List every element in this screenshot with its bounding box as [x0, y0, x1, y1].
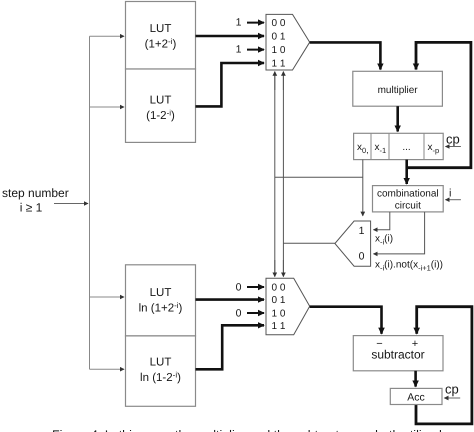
svg-text:step number: step number: [2, 186, 69, 200]
mux M1 (top 4-input multiplexer): [266, 14, 310, 70]
wire: step number arrow into distribution bus: [54, 203, 88, 205]
svg-text:(1-2-i): (1-2-i): [146, 109, 175, 123]
svg-text:1: 1: [236, 43, 242, 55]
svg-text:i ≥ 1: i ≥ 1: [20, 201, 43, 215]
wire: select line A vertical (x0) with arrows into both muxes: [274, 72, 276, 277]
wire: subtractor output to Acc: [414, 371, 417, 387]
wire: x0 sign line from register down into M2 top: [362, 160, 364, 216]
svg-text:0 0: 0 0: [272, 283, 286, 294]
svg-text:1 1: 1 1: [272, 321, 286, 332]
accumulator Acc: [390, 388, 442, 404]
wire: bus arrow into LUT (1-2^-i): [90, 106, 125, 108]
svg-text:combinational: combinational: [377, 189, 439, 200]
svg-text:0 1: 0 1: [272, 32, 286, 43]
svg-text:Acc: Acc: [407, 392, 425, 404]
register X (x0 , x-1 ... x-p): [354, 133, 444, 159]
cp clock stub into register: [446, 132, 461, 147]
svg-text:...: ...: [402, 142, 410, 153]
wire: multiplier output to register: [396, 106, 399, 131]
constant 0 into M3 row 00: [236, 281, 264, 293]
LUT (1-2^-i): [126, 69, 196, 142]
node: step number input label: [2, 186, 69, 215]
wire: vertical distribution bus: [89, 36, 91, 369]
svg-text:LUT: LUT: [150, 23, 172, 35]
wire: M2 output to select line B: [283, 242, 335, 244]
wire: M1 output to multiplier left input: [310, 42, 381, 69]
svg-text:subtractor: subtractor: [371, 348, 424, 362]
wire: feedback from register to multiplier right input: [407, 42, 471, 167]
wire: LUT ln(1-2^-i) output to M3 row 11: [196, 325, 265, 369]
svg-text:multiplier: multiplier: [378, 85, 419, 96]
wire: combinational circuit to M2 input 0: [374, 212, 425, 254]
combinational circuit U2: [373, 186, 444, 212]
svg-text:x-i(i): x-i(i): [375, 234, 393, 247]
subtractor U3: [353, 336, 443, 371]
svg-text:0 1: 0 1: [272, 295, 286, 306]
svg-text:LUT: LUT: [150, 287, 172, 299]
svg-text:LUT: LUT: [150, 357, 172, 369]
wire: LUT(1+2^-i) output to M1 row 01: [196, 35, 265, 38]
wire: LUT(1-2^-i) output to M1 row 11: [196, 63, 265, 106]
i input stub into combinational circuit: [446, 188, 461, 200]
svg-text:circuit: circuit: [395, 201, 421, 212]
constant 0 into M3 row 10: [236, 308, 264, 320]
LUT (1+2^-i): [126, 2, 196, 70]
svg-text:1: 1: [359, 225, 365, 237]
svg-text:(1+2-i): (1+2-i): [145, 37, 177, 51]
constant 1 into M1 row 00: [236, 17, 264, 29]
wire: select line B vertical with arrows into both muxes: [282, 72, 284, 277]
svg-text:0: 0: [236, 308, 242, 320]
wire: register output down to combinational circuit: [405, 160, 408, 184]
multiplier U1: [353, 71, 443, 106]
svg-text:cp: cp: [446, 132, 460, 147]
svg-text:1 0: 1 0: [272, 309, 286, 320]
wire: accumulator feedback loop to subtractor plus input: [416, 307, 472, 424]
svg-text:0: 0: [236, 281, 242, 293]
LUT ln(1+2^-i): [126, 265, 196, 336]
wire: LUT ln(1+2^-i) output to M3 row 01: [196, 298, 265, 301]
svg-text:cp: cp: [445, 382, 459, 397]
LUT ln(1-2^-i): [126, 336, 196, 406]
cp clock stub into Acc: [444, 382, 460, 399]
svg-text:0 0: 0 0: [272, 18, 286, 29]
wire: x0 branch to select line A: [275, 176, 363, 178]
wire: M3 output to subtractor minus input: [310, 307, 382, 334]
wire: bus arrow into LUT ln(1-2^-i): [90, 368, 125, 370]
svg-text:1 0: 1 0: [272, 45, 286, 56]
wire: bus arrow into LUT ln(1+2^-i): [90, 296, 125, 298]
wire: combinational circuit to M2 input 1: [374, 212, 390, 230]
svg-text:LUT: LUT: [150, 95, 172, 107]
svg-text:Figure 4: In this case, the mu: Figure 4: In this case, the multiplier a…: [52, 428, 442, 432]
constant 1 into M1 row 10: [236, 43, 264, 55]
svg-text:i: i: [449, 188, 451, 200]
mux M2 (2-input, points left): [335, 221, 371, 266]
svg-text:1: 1: [236, 17, 242, 29]
svg-text:0: 0: [359, 251, 365, 263]
svg-text:1 1: 1 1: [272, 59, 286, 70]
mux M3 (bottom 4-input multiplexer): [266, 278, 310, 335]
wire: bus arrow into LUT (1+2^-i): [90, 35, 125, 37]
svg-text:x-i(i).not(x-i+1(i)): x-i(i).not(x-i+1(i)): [375, 260, 443, 273]
